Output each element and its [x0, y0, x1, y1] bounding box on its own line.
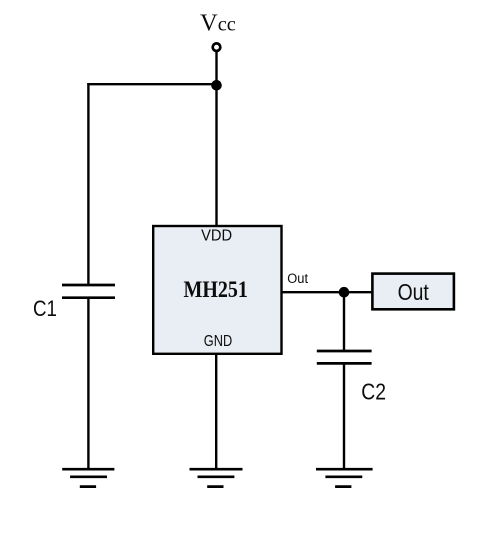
svg-text:C1: C1	[33, 296, 57, 321]
svg-text:Out: Out	[398, 281, 429, 306]
svg-text:VDD: VDD	[201, 227, 232, 245]
svg-text:Vcc: Vcc	[200, 10, 236, 37]
svg-text:MH251: MH251	[183, 277, 247, 303]
svg-text:GND: GND	[204, 333, 232, 350]
svg-text:Out: Out	[287, 270, 308, 286]
svg-text:C2: C2	[361, 380, 386, 405]
